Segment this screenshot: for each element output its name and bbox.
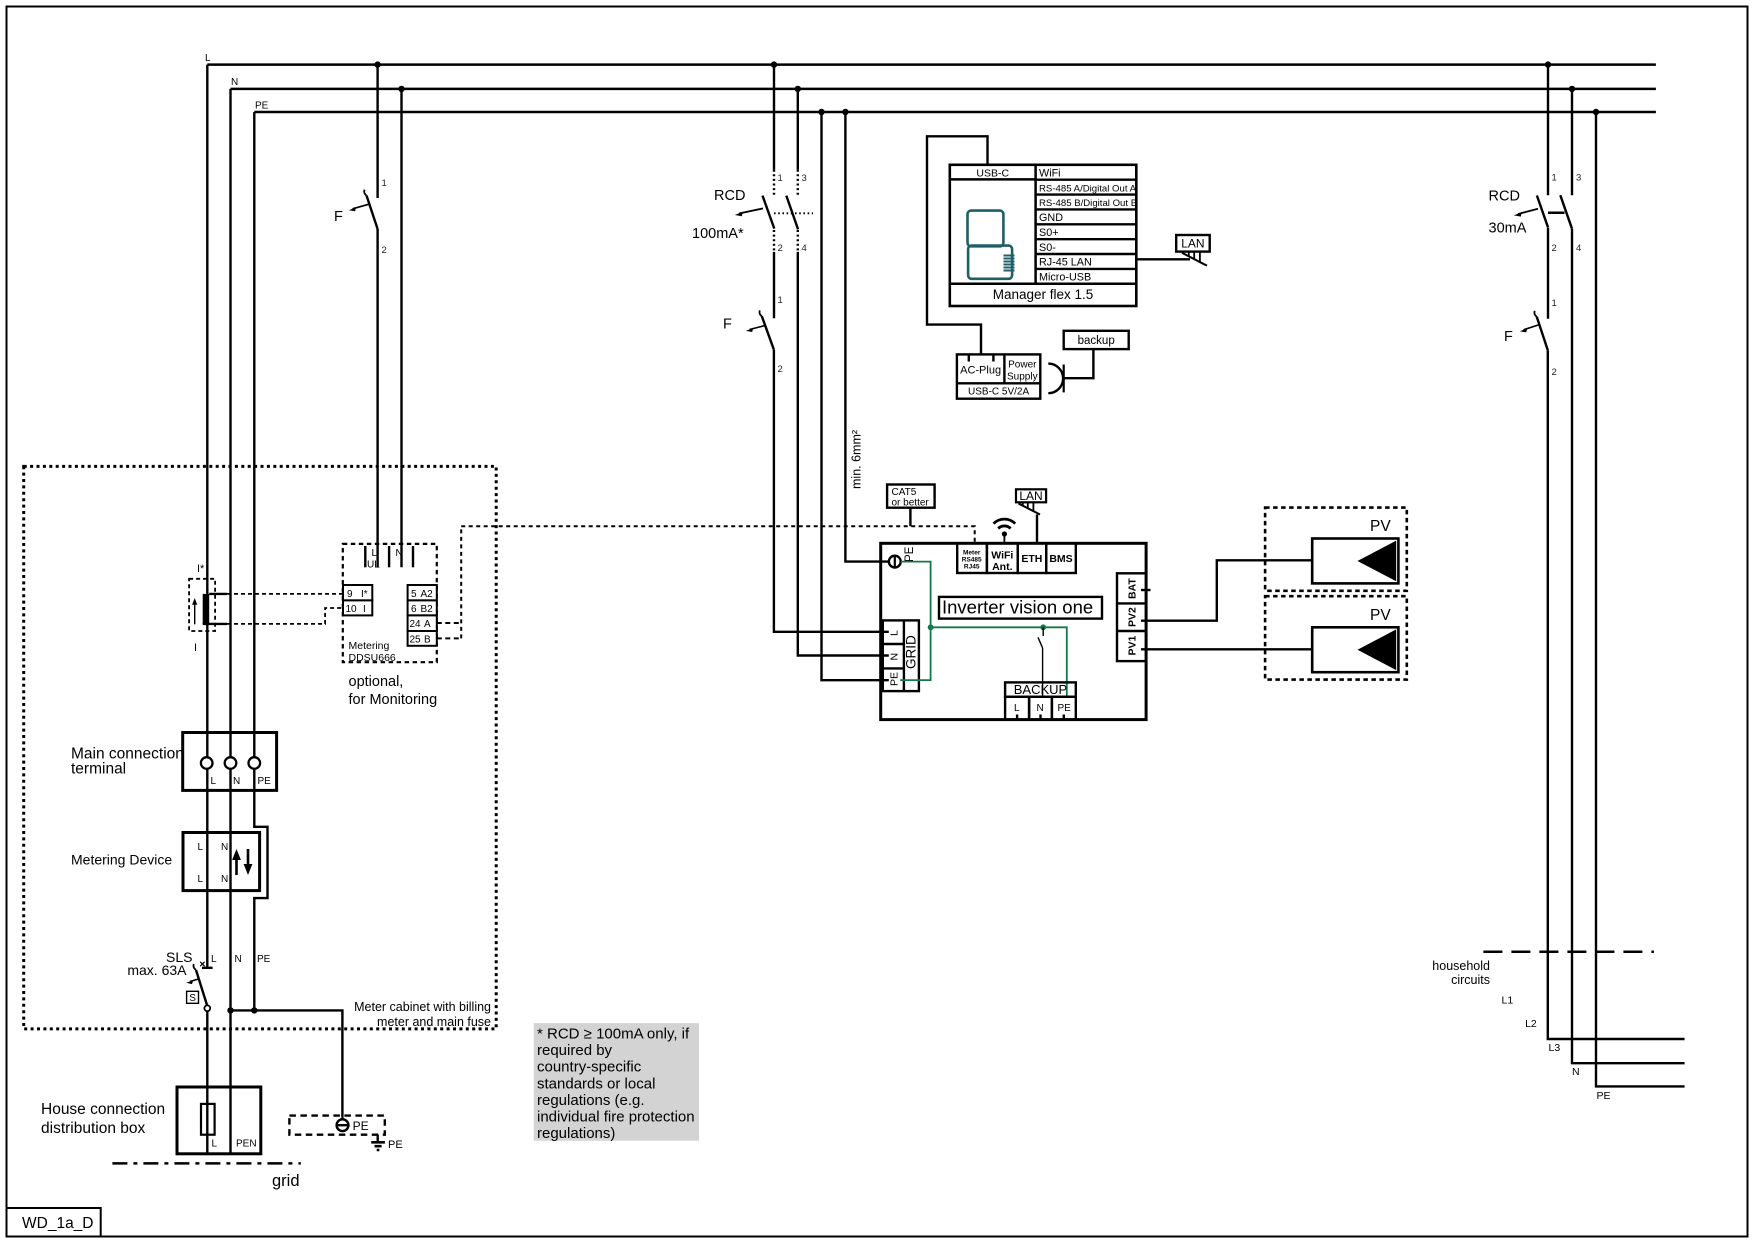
AC-Plug divider vertical	[1003, 354, 1005, 383]
svg-text:L: L	[198, 842, 204, 853]
svg-text:Meter: Meter	[963, 550, 981, 557]
wire PE bus	[254, 111, 1656, 114]
green junction dot 1	[928, 624, 934, 630]
current transformer core	[203, 594, 210, 624]
svg-text:5: 5	[411, 589, 417, 600]
svg-text:backup: backup	[1078, 335, 1115, 347]
wire L right upper	[1547, 65, 1549, 196]
BAT stub	[1141, 589, 1151, 591]
svg-text:L: L	[889, 630, 901, 636]
SLS top contact tick	[202, 967, 213, 969]
BACKUP cell PE	[1052, 697, 1076, 720]
CAT5 or better box	[887, 485, 935, 508]
footer divider	[950, 283, 1137, 286]
wire CT stub bottom	[203, 623, 227, 625]
junction dot PEN-PE	[251, 1007, 257, 1013]
junction dot PE-x845	[842, 109, 848, 115]
svg-text:BMS: BMS	[1049, 553, 1072, 565]
wire N feed upper	[797, 89, 799, 170]
svg-text:B: B	[424, 635, 431, 646]
green wire PE internal	[900, 562, 930, 681]
svg-text:N: N	[396, 548, 403, 559]
terminal WiFi Ant	[987, 543, 1018, 573]
USB-C icon upper body	[968, 211, 1004, 247]
svg-text:100mA*: 100mA*	[692, 226, 744, 242]
svg-text:3: 3	[1576, 173, 1581, 184]
svg-text:Supply: Supply	[1007, 372, 1038, 383]
USB-C icon lower body	[968, 246, 1012, 279]
svg-text:L3: L3	[1549, 1042, 1561, 1054]
svg-text:circuits: circuits	[1451, 973, 1490, 987]
svg-text:House connection: House connection	[41, 1101, 165, 1118]
earth symbol	[371, 1142, 385, 1150]
svg-text:GND: GND	[1039, 212, 1063, 224]
RCD2 pole 1 blade	[1537, 196, 1548, 228]
wire L through fuse	[206, 1104, 208, 1135]
junction dot N-x797	[795, 86, 801, 92]
current transformer dashed box	[189, 579, 215, 631]
terminal circle N	[225, 757, 237, 769]
wire RS485 A dashed	[437, 622, 461, 624]
wire USB-C to AC plug	[927, 136, 988, 354]
wire backup to socket	[1065, 349, 1094, 378]
svg-text:S: S	[189, 993, 196, 1004]
terminal circle PE	[249, 757, 261, 769]
meter arrow up	[235, 856, 238, 875]
wire RS485 comm run dashed	[461, 526, 975, 543]
backup socket arc	[1048, 364, 1063, 394]
wire N tap	[400, 89, 402, 567]
svg-text:PEN: PEN	[236, 1139, 257, 1150]
svg-text:USB-C: USB-C	[976, 167, 1009, 179]
svg-text:Micro-USB: Micro-USB	[1039, 272, 1091, 284]
PV module 2 symbol	[1312, 627, 1398, 672]
SLS blade hook	[193, 964, 196, 970]
svg-text:N: N	[1572, 1066, 1580, 1078]
svg-text:S0+: S0+	[1039, 227, 1059, 239]
GRID terminal outer	[883, 620, 919, 691]
svg-text:1: 1	[778, 173, 783, 184]
svg-text:N: N	[889, 653, 901, 661]
USB-C icon coil	[1004, 256, 1015, 271]
svg-text:GRID: GRID	[904, 635, 919, 669]
svg-text:DDSU666: DDSU666	[349, 652, 396, 664]
LAN plug pins	[1023, 502, 1034, 512]
current transformer arrow	[194, 601, 196, 624]
terminal circle L	[201, 757, 213, 769]
junction dot L-x774	[771, 61, 777, 67]
svg-text:terminal: terminal	[71, 761, 126, 778]
LAN box above ETH	[1016, 489, 1046, 502]
RCD pole 1 blade	[763, 196, 775, 229]
svg-text:LAN: LAN	[1181, 237, 1204, 251]
svg-text:PE: PE	[1058, 703, 1072, 714]
metering device box	[183, 833, 260, 891]
wire N feed dotted seg 1	[797, 170, 799, 196]
wire N bus	[231, 88, 1656, 91]
svg-text:S0-: S0-	[1039, 242, 1056, 254]
svg-text:1: 1	[778, 295, 783, 306]
PE connector circle	[337, 1119, 349, 1131]
svg-text:1: 1	[382, 178, 387, 189]
svg-text:I*: I*	[361, 589, 368, 600]
svg-text:F: F	[1504, 329, 1513, 345]
row divider 5	[1036, 238, 1137, 240]
svg-text:min. 6mm²: min. 6mm²	[850, 430, 864, 489]
svg-text:A2: A2	[421, 589, 434, 600]
row divider 3	[1036, 208, 1137, 210]
svg-text:PV2: PV2	[1127, 607, 1139, 627]
svg-text:RJ45: RJ45	[964, 564, 980, 571]
svg-text:10: 10	[346, 604, 358, 615]
svg-text:individual fire protection: individual fire protection	[537, 1109, 695, 1126]
svg-text:N: N	[221, 842, 228, 853]
svg-text:AC-Plug: AC-Plug	[960, 365, 1001, 377]
svg-text:PV: PV	[1370, 607, 1391, 624]
RCD mechanical link dotted	[774, 212, 813, 214]
svg-text:grid: grid	[272, 1172, 300, 1190]
wire CAT5 stub	[909, 508, 911, 527]
svg-text:for Monitoring: for Monitoring	[349, 692, 438, 708]
svg-text:N: N	[235, 954, 242, 965]
green junction dot 2	[1040, 624, 1046, 630]
svg-text:RCD: RCD	[1489, 189, 1520, 205]
Manager flex 1.5 outer box	[950, 165, 1137, 306]
fuse F left blade	[367, 196, 378, 230]
AC plug pin 1	[968, 354, 970, 361]
svg-text:1: 1	[1552, 173, 1557, 184]
svg-text:PE: PE	[258, 776, 272, 787]
title block WD_1a_D	[7, 1208, 101, 1237]
junction dot N-x401	[398, 86, 404, 92]
PV module 1 triangle	[1358, 541, 1397, 582]
AC-Plug power supply box	[957, 354, 1040, 398]
BAT PV terminal outer	[1117, 573, 1146, 661]
wire RS485 riser dashed	[460, 526, 462, 638]
svg-text:distribution box: distribution box	[41, 1120, 146, 1137]
wire CT to meter terminal 9 dashed	[227, 593, 343, 595]
svg-text:L: L	[198, 874, 204, 885]
row divider 1	[1036, 178, 1137, 180]
svg-text:L: L	[205, 53, 211, 64]
PV module 2 dashed box	[1265, 596, 1407, 679]
PV module 2 triangle	[1358, 629, 1397, 670]
wire L feed dotted seg 1	[773, 170, 775, 196]
wire N main vertical	[229, 89, 231, 1153]
svg-text:Meter cabinet with billing: Meter cabinet with billing	[354, 1000, 491, 1014]
SLS arrow	[190, 979, 199, 982]
terminal 25 B	[408, 631, 437, 646]
household boundary dashed line	[1483, 951, 1654, 954]
fuse F right blade	[1537, 317, 1548, 351]
svg-text:RJ-45 LAN: RJ-45 LAN	[1039, 257, 1092, 269]
SLS switch blade	[196, 970, 207, 1006]
wire N right upper	[1571, 89, 1573, 195]
junction dot N-x1572	[1569, 86, 1575, 92]
wire L feed dotted seg 2	[773, 230, 775, 252]
BACKUP cell ticks	[1017, 715, 1064, 720]
svg-text:BACKUP: BACKUP	[1014, 682, 1067, 697]
LAN plug pins	[1189, 252, 1200, 262]
row divider 6	[1036, 253, 1137, 255]
svg-text:2: 2	[1552, 243, 1557, 254]
WiFi antenna symbol	[1002, 531, 1007, 536]
wire RJ-45 LAN to LAN plug	[1136, 258, 1190, 260]
UL terminal tick 3	[412, 546, 414, 567]
svg-text:L1: L1	[1502, 995, 1514, 1007]
svg-text:WD_1a_D: WD_1a_D	[22, 1215, 94, 1232]
svg-text:PE: PE	[255, 101, 269, 112]
RCD arrow	[739, 208, 763, 213]
wire N feed dotted seg 2	[797, 230, 799, 252]
column divider	[1034, 165, 1037, 284]
wire L below SLS	[206, 1011, 208, 1153]
svg-text:WiFi: WiFi	[1039, 167, 1061, 179]
svg-text:UL: UL	[367, 560, 380, 571]
metering DDSU666 dashed box	[343, 544, 437, 662]
svg-text:B2: B2	[421, 604, 434, 615]
svg-text:or better: or better	[892, 498, 930, 509]
svg-text:PE: PE	[1597, 1090, 1611, 1102]
svg-text:Inverter vision one: Inverter vision one	[942, 597, 1093, 618]
fuse F left arrow	[353, 204, 370, 209]
RCD pole 2 blade	[786, 196, 798, 230]
terminal 10 I	[343, 600, 372, 615]
svg-text:4: 4	[1576, 243, 1581, 254]
wire PE main vertical with jog around meter	[254, 112, 267, 1010]
svg-text:2: 2	[778, 364, 783, 375]
wire L feed to inverter GRID L	[774, 350, 883, 632]
svg-text:2: 2	[778, 243, 783, 254]
BACKUP cell N	[1029, 697, 1052, 720]
svg-text:ETH: ETH	[1021, 553, 1042, 565]
BACKUP label box	[1005, 682, 1076, 696]
wire CT stub top	[209, 593, 227, 595]
SLS contact cross	[200, 962, 204, 966]
svg-text:I*: I*	[197, 563, 205, 575]
earth stem	[377, 1135, 379, 1143]
PV module 1 dashed box	[1265, 508, 1407, 591]
svg-text:standards or local: standards or local	[537, 1075, 655, 1092]
svg-text:RS-485 A/Digital Out A: RS-485 A/Digital Out A	[1039, 183, 1137, 194]
terminal 24 A	[408, 615, 437, 631]
GRID cell ticks	[883, 632, 889, 680]
LAN plug diagonal	[1019, 504, 1041, 515]
junction dot PEN-N	[227, 1007, 233, 1013]
RCD2 arrow	[1518, 209, 1538, 214]
svg-text:L: L	[211, 776, 217, 787]
meter arrow down	[247, 849, 250, 868]
svg-text:USB-C 5V/2A: USB-C 5V/2A	[968, 387, 1029, 398]
PE connector bar	[336, 1124, 350, 1126]
PE stud symbol	[894, 555, 896, 568]
wire L bus	[207, 63, 1656, 66]
svg-text:9: 9	[347, 589, 353, 600]
svg-text:household: household	[1432, 959, 1490, 973]
AC-Plug divider horizontal	[957, 382, 1040, 384]
svg-text:meter and main fuse: meter and main fuse	[377, 1015, 491, 1029]
wire PV1	[1141, 648, 1312, 650]
wire N right to household	[1572, 229, 1685, 1063]
svg-text:PV: PV	[1370, 518, 1391, 535]
svg-text:4: 4	[802, 243, 807, 254]
svg-text:N: N	[221, 874, 228, 885]
fuse F right arrow	[1524, 325, 1540, 330]
svg-text:I: I	[363, 604, 366, 615]
main connection terminal box	[183, 733, 277, 791]
LAN box	[1176, 235, 1210, 252]
svg-text:I: I	[194, 642, 197, 654]
GRID cells divider	[883, 620, 904, 691]
svg-text:3: 3	[802, 173, 807, 184]
svg-text:A: A	[424, 619, 431, 630]
inverter U1 outer box	[881, 543, 1146, 719]
svg-text:N: N	[231, 77, 238, 88]
junction dot PE-x1596	[1593, 109, 1599, 115]
meter cabinet dotted border	[24, 466, 497, 1029]
svg-text:L: L	[212, 1139, 218, 1150]
svg-text:optional,: optional,	[349, 674, 404, 690]
svg-text:F: F	[723, 317, 732, 333]
SLS bottom contact circle	[204, 1005, 210, 1011]
svg-text:* RCD ≥ 100mA only, if: * RCD ≥ 100mA only, if	[537, 1026, 690, 1043]
svg-text:F: F	[334, 209, 343, 225]
wire PE right to household	[1596, 112, 1685, 1086]
BACKUP cell L	[1005, 697, 1029, 720]
wire LAN to ETH	[1036, 515, 1038, 544]
USB-C header divider	[950, 178, 1036, 181]
S actuator box	[187, 991, 199, 1003]
label box Inverter vision one	[939, 597, 1102, 619]
svg-text:Power: Power	[1008, 360, 1037, 371]
wire L tap to meter	[376, 65, 378, 198]
svg-text:6: 6	[411, 604, 417, 615]
wire PV2	[1141, 560, 1312, 620]
svg-text:BAT: BAT	[1127, 578, 1139, 599]
fuse F1	[201, 1104, 215, 1135]
svg-text:Metering Device: Metering Device	[71, 852, 172, 868]
junction dot L-x377	[374, 61, 380, 67]
wire L feed mid	[773, 252, 775, 318]
junction dot L-x1548	[1545, 61, 1551, 67]
svg-text:PV1: PV1	[1127, 635, 1139, 655]
svg-text:Metering: Metering	[349, 640, 390, 652]
AC plug pin 2	[992, 354, 994, 361]
fuse F mid blade	[762, 316, 774, 350]
wire L right to household	[1548, 350, 1685, 1039]
backup plug bar	[1063, 365, 1065, 393]
wire N feed to inverter GRID N	[798, 252, 883, 656]
svg-text:CAT5: CAT5	[892, 487, 917, 498]
UL terminal tick 2	[388, 546, 390, 567]
svg-text:Ant.: Ant.	[992, 561, 1012, 573]
svg-text:RCD: RCD	[714, 188, 745, 204]
wire L main vertical	[206, 65, 208, 968]
fuse F mid arrow	[750, 325, 766, 329]
svg-text:N: N	[233, 776, 240, 787]
svg-text:L: L	[372, 548, 378, 559]
backup relay wire lower	[1042, 648, 1044, 697]
svg-text:L: L	[211, 954, 217, 965]
terminal ETH	[1018, 543, 1046, 573]
svg-text:RS-485 B/Digital Out B: RS-485 B/Digital Out B	[1039, 198, 1137, 209]
row divider 7	[1036, 268, 1137, 270]
PV module 1 symbol	[1312, 539, 1398, 584]
house connection distribution box	[177, 1087, 261, 1154]
wire RS485 B dashed	[437, 637, 461, 639]
row divider 2	[1036, 193, 1137, 195]
svg-text:L: L	[1014, 703, 1020, 714]
svg-text:1: 1	[1552, 298, 1557, 309]
wire L tap lower	[376, 229, 378, 567]
UL terminal tick 1	[364, 546, 366, 567]
svg-text:N: N	[1037, 703, 1044, 714]
svg-text:country-specific: country-specific	[537, 1059, 642, 1076]
svg-text:25: 25	[410, 635, 422, 646]
terminal Meter RS485 RJ45	[957, 543, 987, 573]
PE connector plug triangle	[338, 1117, 347, 1121]
wire L feed upper	[773, 65, 775, 170]
svg-text:regulations): regulations)	[537, 1125, 615, 1142]
svg-text:2: 2	[382, 245, 387, 256]
svg-text:PE: PE	[904, 546, 916, 562]
backup relay wire upper	[1042, 627, 1044, 636]
grid boundary dash-dot line	[112, 1162, 300, 1165]
svg-text:LAN: LAN	[1019, 489, 1042, 503]
terminal BMS	[1046, 543, 1076, 573]
backup box	[1064, 331, 1129, 349]
terminal 6 B2	[408, 600, 437, 615]
svg-text:L2: L2	[1525, 1018, 1537, 1030]
backup relay blade	[1038, 637, 1043, 648]
wire PEN to earth	[231, 1010, 343, 1117]
RCD2 link bar	[1548, 212, 1565, 215]
svg-text:required by: required by	[537, 1042, 613, 1059]
svg-text:30mA: 30mA	[1489, 221, 1527, 237]
wire L right mid	[1547, 228, 1549, 319]
svg-text:WiFi: WiFi	[991, 550, 1013, 562]
LAN plug diagonal	[1182, 253, 1207, 266]
green wire PE run to backup	[931, 627, 1067, 697]
RCD2 pole 2 blade	[1560, 195, 1572, 229]
row divider 4	[1036, 223, 1137, 225]
terminal 9 I*	[343, 585, 372, 600]
svg-text:PE: PE	[353, 1119, 369, 1133]
wire PE feed to inverter GRID PE	[822, 112, 883, 680]
svg-text:PE: PE	[257, 954, 271, 965]
svg-text:Manager flex 1.5: Manager flex 1.5	[993, 287, 1094, 302]
svg-text:24: 24	[410, 619, 422, 630]
svg-text:regulations (e.g.: regulations (e.g.	[537, 1092, 645, 1109]
wire CT to meter terminal 10 dashed	[227, 608, 343, 624]
svg-text:PE: PE	[388, 1139, 403, 1151]
BAT PV dividers	[1117, 603, 1146, 631]
svg-text:max. 63A: max. 63A	[127, 962, 187, 978]
wire PE feed 2 to inverter PE stud	[845, 112, 889, 562]
svg-text:RS485: RS485	[962, 557, 982, 564]
svg-text:2: 2	[1552, 367, 1557, 378]
svg-text:PE: PE	[889, 672, 901, 686]
note box RCD requirement	[534, 1023, 699, 1141]
PE connector dashed box	[289, 1116, 384, 1135]
terminal 5 A2	[408, 585, 437, 600]
junction dot PE-x821	[818, 109, 824, 115]
